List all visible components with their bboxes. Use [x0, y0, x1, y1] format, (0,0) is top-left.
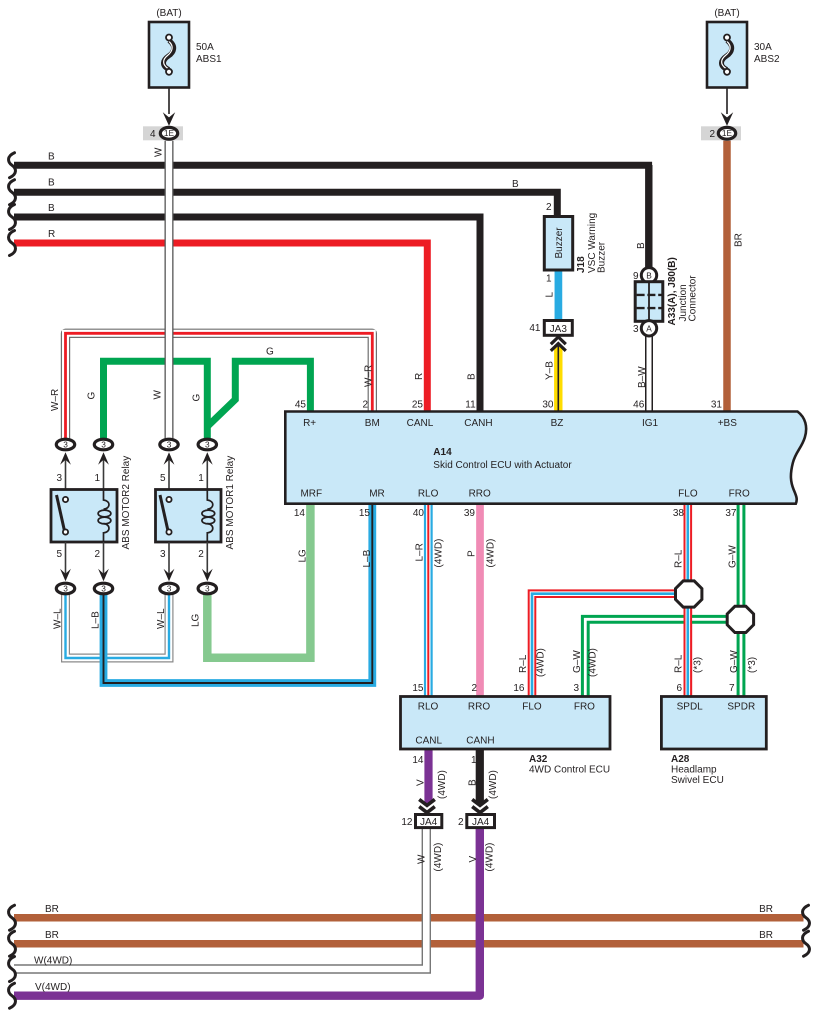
wire B horizontal 1 to junction connector — [14, 162, 649, 268]
arrow down relay1 pin3 — [164, 569, 175, 582]
relay ABS MOTOR2 Relay — [51, 456, 132, 575]
break B2 left — [9, 180, 16, 205]
svg-text:3: 3 — [63, 584, 68, 594]
svg-text:BM: BM — [365, 418, 380, 429]
svg-text:15: 15 — [359, 508, 371, 519]
wire W-L relay2 pin5 to relay1 pin3 — [66, 592, 170, 658]
svg-text:R–L: R–L — [674, 549, 685, 568]
svg-text:30A: 30A — [754, 42, 772, 53]
svg-text:G–W: G–W — [572, 650, 583, 673]
svg-text:B: B — [48, 151, 55, 162]
svg-text:RLO: RLO — [418, 489, 439, 500]
svg-text:L–B: L–B — [91, 611, 102, 629]
svg-text:38: 38 — [673, 508, 685, 519]
svg-text:(4WD): (4WD) — [437, 770, 448, 799]
svg-text:W: W — [417, 854, 428, 864]
svg-text:FRO: FRO — [574, 702, 595, 713]
svg-text:31: 31 — [711, 400, 723, 411]
wire P RRO to A32 — [476, 504, 484, 697]
wire W fuse ABS1 to relay1 pin5 — [165, 141, 174, 441]
svg-text:4: 4 — [150, 129, 156, 140]
connector JA3 — [529, 321, 572, 351]
svg-text:3: 3 — [101, 440, 106, 450]
svg-text:W–R: W–R — [364, 365, 375, 387]
svg-text:(4WD): (4WD) — [488, 770, 499, 799]
wire R-L vertical over G-W — [683, 608, 692, 697]
svg-text:1: 1 — [471, 755, 477, 766]
wire G-W FRO to octagon and branch to A32 FRO — [585, 504, 741, 697]
svg-text:RRO: RRO — [469, 489, 491, 500]
break B3 left — [9, 205, 16, 230]
svg-text:RLO: RLO — [418, 702, 439, 713]
connector circle 3 (relay1 pin2 lower) — [198, 583, 216, 594]
svg-text:G–W: G–W — [728, 545, 739, 568]
svg-text:G–W: G–W — [729, 650, 740, 673]
svg-text:(4WD): (4WD) — [536, 648, 547, 677]
wire V A32 CANL to JA4 — [424, 749, 432, 803]
svg-text:50A: 50A — [196, 42, 214, 53]
fuse 30A ABS2 — [707, 8, 780, 126]
svg-text:FLO: FLO — [678, 489, 698, 500]
svg-text:14: 14 — [294, 508, 306, 519]
svg-text:(4WD): (4WD) — [588, 648, 599, 677]
svg-text:BR: BR — [759, 904, 773, 915]
svg-text:3: 3 — [167, 584, 172, 594]
svg-text:41: 41 — [529, 323, 541, 334]
junction connector A33(A), J80(B) — [633, 165, 699, 336]
svg-text:JA4: JA4 — [472, 817, 490, 828]
wire W-R relay2 pin3 to BM — [66, 333, 373, 441]
break R left — [9, 231, 16, 256]
arrow up relay1 pin1 — [202, 452, 213, 465]
svg-text:BR: BR — [45, 930, 59, 941]
svg-text:Buzzer: Buzzer — [597, 241, 608, 273]
svg-text:SPDL: SPDL — [677, 702, 704, 713]
svg-text:3: 3 — [56, 473, 62, 484]
svg-text:A32: A32 — [529, 754, 548, 765]
svg-text:G: G — [192, 394, 203, 402]
svg-text:3: 3 — [205, 584, 210, 594]
svg-text:CANH: CANH — [464, 418, 492, 429]
wire L-R RLO to A32 — [424, 504, 433, 697]
connector 4 1E — [143, 126, 183, 140]
svg-text:SPDR: SPDR — [727, 702, 755, 713]
svg-text:B–W: B–W — [637, 366, 648, 388]
svg-text:CANL: CANL — [407, 418, 434, 429]
svg-text:6: 6 — [676, 683, 682, 694]
svg-text:V: V — [468, 856, 479, 863]
svg-text:3: 3 — [167, 440, 172, 450]
svg-text:B: B — [646, 271, 652, 281]
connector circle 3 (relay2 pin1) — [94, 439, 112, 450]
connector 2 1E — [701, 126, 741, 140]
svg-text:39: 39 — [464, 508, 476, 519]
svg-text:B: B — [468, 779, 479, 786]
svg-text:Connector: Connector — [688, 275, 699, 322]
svg-text:1: 1 — [198, 473, 204, 484]
ECU A28 Headlamp Swivel ECU — [661, 683, 766, 786]
buzzer J18 — [544, 202, 607, 285]
break B1 left — [9, 153, 16, 178]
svg-text:W: W — [153, 390, 164, 400]
svg-text:LG: LG — [191, 613, 202, 627]
svg-text:2: 2 — [546, 202, 552, 213]
svg-text:1: 1 — [546, 274, 552, 285]
svg-text:R–L: R–L — [518, 654, 529, 673]
wire B horizontal 3 to CANH — [14, 214, 480, 413]
svg-text:R: R — [48, 229, 55, 240]
svg-text:W–L: W–L — [53, 608, 64, 629]
connector circle 3 (relay1 pin3 lower) — [160, 583, 178, 594]
svg-text:Swivel ECU: Swivel ECU — [671, 775, 724, 786]
svg-text:(4WD): (4WD) — [433, 843, 444, 872]
arrow down relay2 pin2 — [98, 569, 109, 582]
svg-text:JA3: JA3 — [550, 324, 568, 335]
svg-text:3: 3 — [101, 584, 106, 594]
wire LG relay1 pin2 to MRF — [207, 504, 310, 658]
connector JA4 right — [458, 799, 495, 828]
svg-text:R+: R+ — [303, 418, 316, 429]
svg-text:W–L: W–L — [156, 608, 167, 629]
wire L buzzer to JA3 — [555, 270, 563, 321]
svg-text:Skid Control ECU with Actuator: Skid Control ECU with Actuator — [433, 460, 572, 471]
svg-text:2: 2 — [94, 549, 100, 560]
svg-text:25: 25 — [412, 400, 424, 411]
svg-text:IG1: IG1 — [642, 418, 659, 429]
svg-text:14: 14 — [412, 755, 424, 766]
svg-text:FLO: FLO — [522, 702, 542, 713]
ECU A32 4WD Control ECU — [401, 697, 611, 776]
wire B A32 CANH to JA4 — [476, 749, 484, 803]
svg-text:(BAT): (BAT) — [714, 8, 739, 19]
svg-text:3: 3 — [205, 440, 210, 450]
A14 top pin numbers — [295, 400, 723, 411]
svg-text:15: 15 — [412, 683, 424, 694]
svg-text:1E: 1E — [164, 128, 175, 138]
octagon junction 2 — [727, 606, 753, 632]
svg-text:37: 37 — [725, 508, 737, 519]
svg-text:CANH: CANH — [466, 736, 494, 747]
svg-text:CANL: CANL — [415, 736, 442, 747]
arrow up relay2 pin1 — [98, 452, 109, 465]
svg-text:2: 2 — [709, 129, 715, 140]
wire G branch to R+ — [207, 361, 310, 426]
svg-text:(BAT): (BAT) — [156, 8, 181, 19]
svg-text:46: 46 — [633, 400, 645, 411]
svg-text:3: 3 — [160, 549, 166, 560]
svg-text:ABS2: ABS2 — [754, 54, 780, 65]
connector JA4 left — [401, 799, 441, 828]
break BR1 right — [803, 905, 810, 930]
svg-text:2: 2 — [362, 400, 368, 411]
wire G relay2 pin1 to relay1 pin1 — [104, 361, 208, 441]
svg-text:L–B: L–B — [362, 549, 373, 567]
svg-text:ABS MOTOR1 Relay: ABS MOTOR1 Relay — [225, 456, 236, 550]
svg-text:3: 3 — [573, 683, 579, 694]
break BR1 left — [9, 905, 16, 930]
svg-text:Headlamp: Headlamp — [671, 765, 717, 776]
svg-text:J18: J18 — [576, 256, 587, 273]
svg-text:V(4WD): V(4WD) — [35, 982, 71, 993]
wire B-W junction connector to IG1 — [645, 334, 653, 412]
A14 bottom pin numbers — [294, 508, 737, 519]
wire L-B relay2 pin2 to MR — [104, 504, 373, 683]
connector circle 3 (relay2 pin3) — [56, 439, 74, 450]
svg-text:ABS1: ABS1 — [196, 54, 222, 65]
wire BR fuse ABS2 to +BS — [723, 141, 731, 412]
svg-text:W: W — [154, 147, 165, 157]
svg-text:40: 40 — [413, 508, 425, 519]
svg-text:BR: BR — [45, 904, 59, 915]
svg-text:B: B — [48, 178, 55, 189]
octagon junction 1 — [676, 581, 702, 607]
arrow up relay2 pin3 — [60, 452, 71, 465]
svg-text:R: R — [414, 373, 425, 380]
svg-text:Buzzer: Buzzer — [554, 227, 565, 259]
svg-text:B: B — [467, 373, 478, 380]
svg-text:B: B — [512, 179, 519, 190]
fuse 50A ABS1 — [149, 8, 222, 126]
svg-text:(4WD): (4WD) — [485, 843, 496, 872]
svg-text:7: 7 — [729, 683, 735, 694]
svg-text:B: B — [48, 203, 55, 214]
arrow up relay1 pin5 — [164, 452, 175, 465]
svg-text:LG: LG — [298, 549, 309, 563]
break BR2 right — [803, 931, 810, 956]
svg-text:P: P — [467, 550, 478, 557]
svg-text:A: A — [646, 324, 652, 334]
svg-text:ABS MOTOR2 Relay: ABS MOTOR2 Relay — [121, 456, 132, 550]
svg-text:5: 5 — [160, 473, 166, 484]
svg-text:3: 3 — [63, 440, 68, 450]
break BR2 left — [9, 931, 16, 956]
svg-text:G: G — [87, 392, 98, 400]
wire R horizontal to CANL — [14, 240, 427, 413]
connector circle 3 (relay1 pin1) — [198, 439, 216, 450]
svg-text:4WD Control ECU: 4WD Control ECU — [529, 765, 610, 776]
svg-text:BR: BR — [734, 233, 745, 247]
svg-text:JA4: JA4 — [420, 817, 438, 828]
svg-text:MR: MR — [369, 489, 385, 500]
svg-text:B: B — [636, 242, 647, 249]
svg-text:45: 45 — [295, 400, 307, 411]
svg-text:A33(A), J80(B): A33(A), J80(B) — [667, 257, 678, 325]
relay ABS MOTOR1 Relay — [156, 456, 237, 575]
svg-text:RRO: RRO — [468, 702, 490, 713]
svg-text:BR: BR — [759, 930, 773, 941]
svg-text:(4WD): (4WD) — [434, 539, 445, 568]
svg-text:(*3): (*3) — [693, 657, 704, 673]
svg-text:11: 11 — [465, 400, 476, 411]
svg-text:W(4WD): W(4WD) — [34, 956, 72, 967]
svg-text:2: 2 — [458, 817, 464, 828]
wire Y-B JA3 to BZ — [554, 345, 562, 412]
arrow down relay1 pin2 — [202, 569, 213, 582]
break V4WD left — [9, 983, 16, 1008]
svg-text:+BS: +BS — [718, 418, 738, 429]
break W4WD left — [9, 957, 16, 982]
svg-text:(4WD): (4WD) — [486, 539, 497, 568]
svg-text:30: 30 — [542, 400, 554, 411]
wire BR bottom 2 — [14, 940, 804, 948]
svg-text:L–R: L–R — [415, 543, 426, 561]
arrow down relay2 pin5 — [60, 569, 71, 582]
svg-text:Y–B: Y–B — [545, 361, 556, 380]
svg-text:W–R: W–R — [50, 389, 61, 411]
wire W(4WD) JA4 to left — [14, 828, 426, 969]
connector circle 3 (relay1 pin5) — [160, 439, 178, 450]
svg-text:A14: A14 — [433, 447, 452, 458]
svg-text:MRF: MRF — [300, 489, 322, 500]
wire V(4WD) JA4 to left — [14, 828, 480, 996]
svg-text:R–L: R–L — [674, 654, 685, 673]
svg-text:G: G — [266, 347, 274, 358]
svg-text:1: 1 — [94, 473, 100, 484]
svg-text:5: 5 — [56, 549, 62, 560]
svg-text:BZ: BZ — [551, 418, 564, 429]
svg-text:FRO: FRO — [729, 489, 750, 500]
svg-text:2: 2 — [198, 549, 204, 560]
connector circle 3 (relay2 pin2 lower) — [94, 583, 112, 594]
svg-text:12: 12 — [401, 817, 413, 828]
svg-text:(*3): (*3) — [747, 657, 758, 673]
svg-text:V: V — [416, 779, 427, 786]
svg-text:L: L — [545, 292, 556, 298]
wire BR bottom 1 — [14, 914, 804, 922]
svg-text:A28: A28 — [671, 754, 690, 765]
wire R-L branch octagon to A32 FLO — [532, 504, 688, 697]
svg-text:3: 3 — [633, 324, 639, 335]
svg-text:2: 2 — [471, 683, 477, 694]
connector circle 3 (relay2 pin5 lower) — [56, 583, 74, 594]
svg-text:1E: 1E — [722, 128, 733, 138]
ECU A14 Skid Control ECU with Actuator — [285, 412, 806, 504]
svg-text:16: 16 — [513, 683, 525, 694]
wire B horizontal 2 to buzzer — [14, 189, 557, 217]
